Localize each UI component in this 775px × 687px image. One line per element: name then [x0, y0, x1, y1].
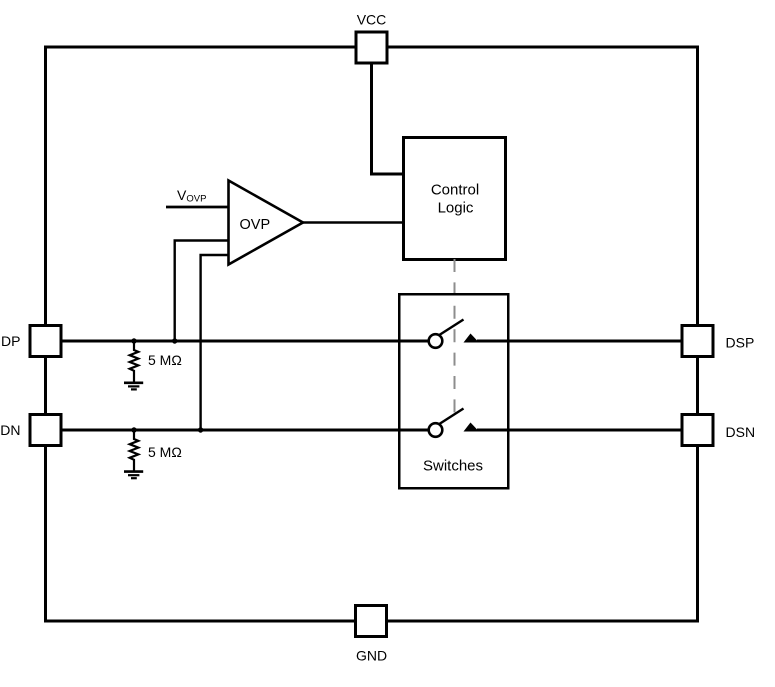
switch SW1 lever	[439, 320, 464, 336]
dashed control line	[454, 259, 456, 422]
wire DP to switch 1	[61, 340, 429, 343]
ground under R2	[124, 472, 143, 479]
junction DN-resistor	[131, 427, 136, 432]
svg-text:DN: DN	[0, 422, 20, 438]
svg-text:Switches: Switches	[423, 458, 483, 475]
resistor R2 5 Mohm	[130, 430, 139, 471]
svg-text:Logic: Logic	[438, 199, 474, 216]
wire DN to switch 2	[61, 429, 429, 432]
wire VCC drop to Control Logic	[372, 64, 403, 174]
svg-text:DSP: DSP	[726, 335, 755, 351]
pin DSP	[682, 326, 713, 357]
wire OVP inverting input from DP	[175, 241, 228, 342]
block Switches	[399, 294, 508, 488]
op-amp comparator OVP	[229, 181, 304, 265]
svg-text:VCC: VCC	[357, 12, 387, 28]
svg-text:Control: Control	[431, 182, 479, 199]
wire switch 2 to DSN	[477, 429, 682, 432]
ground under R1	[124, 383, 143, 390]
switch SW1 pole circle	[429, 334, 443, 348]
pin DN	[30, 415, 61, 446]
svg-text:5 MΩ: 5 MΩ	[148, 444, 182, 460]
svg-text:5 MΩ: 5 MΩ	[148, 352, 182, 368]
svg-text:DP: DP	[1, 333, 20, 349]
switch SW2 lever	[439, 409, 464, 425]
resistor R1 5 Mohm	[130, 341, 139, 383]
svg-text:DSN: DSN	[726, 424, 756, 440]
pin DP	[30, 326, 61, 357]
wire OVP input from DN	[201, 255, 228, 430]
block Control Logic	[404, 138, 506, 260]
pin GND	[356, 606, 387, 637]
svg-text:OVP: OVP	[240, 217, 271, 233]
wire switch 1 to DSP	[477, 340, 682, 343]
junction DN-OVP	[198, 427, 203, 432]
svg-text:GND: GND	[356, 648, 387, 664]
switch SW1 contact arrow	[464, 334, 480, 343]
outer boundary box	[46, 47, 698, 621]
switch SW2 contact arrow	[464, 423, 480, 432]
junction DP-resistor	[131, 338, 136, 343]
pin VCC	[356, 32, 387, 63]
wire V_OVP input	[166, 206, 228, 209]
junction DP-OVP	[172, 338, 177, 343]
switch SW2 pole circle	[429, 423, 443, 437]
pin DSN	[682, 415, 713, 446]
wire OVP output to Control Logic	[303, 221, 402, 224]
